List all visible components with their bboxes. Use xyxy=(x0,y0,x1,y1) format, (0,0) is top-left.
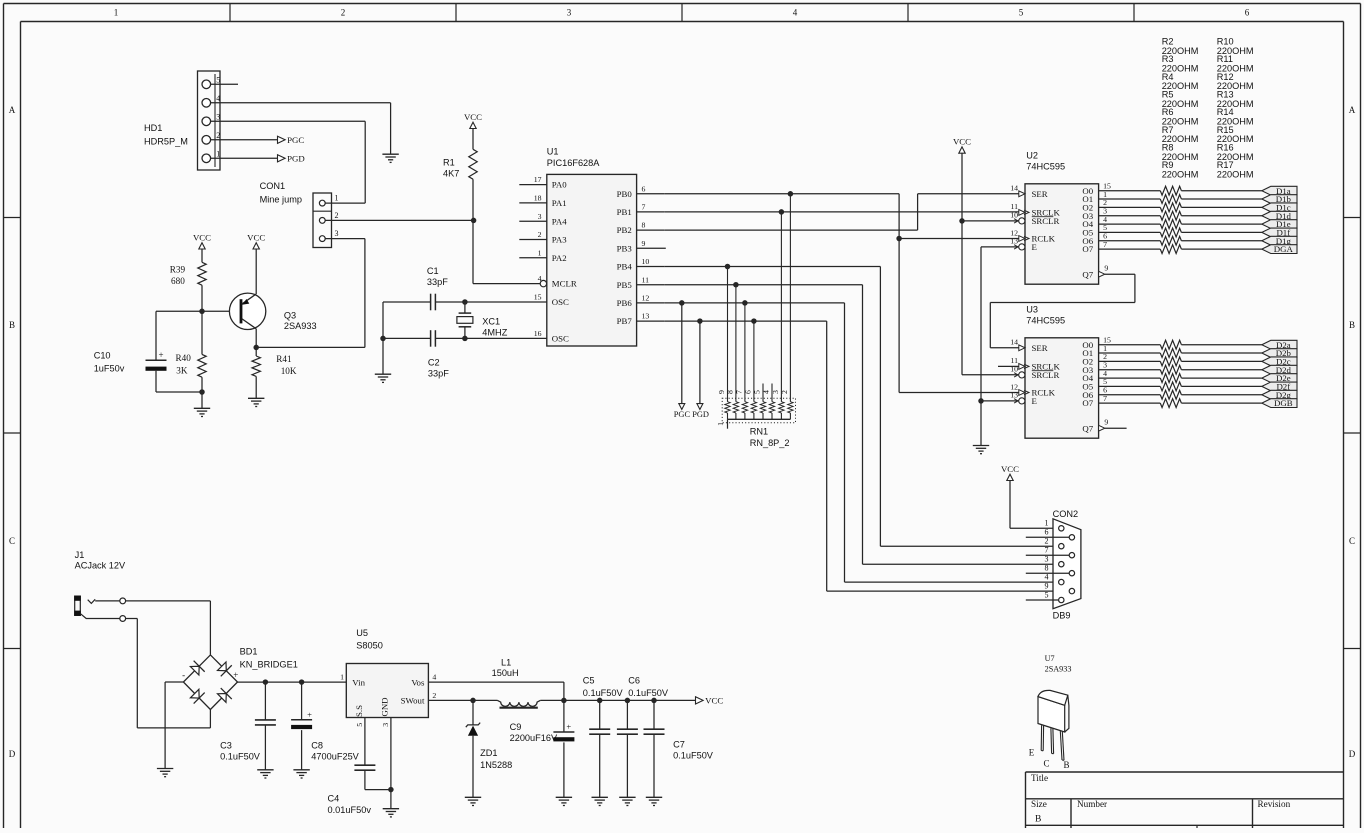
svg-text:U3: U3 xyxy=(1026,305,1038,315)
svg-text:9: 9 xyxy=(1045,582,1049,591)
svg-text:3: 3 xyxy=(381,723,390,727)
svg-text:C7: C7 xyxy=(673,739,685,749)
svg-text:3: 3 xyxy=(538,212,542,221)
svg-text:7: 7 xyxy=(642,203,646,212)
svg-text:0.1uF50V: 0.1uF50V xyxy=(220,751,261,761)
svg-text:+: + xyxy=(158,350,163,360)
svg-text:VCC: VCC xyxy=(193,232,211,242)
svg-text:C9: C9 xyxy=(510,722,522,732)
svg-text:8: 8 xyxy=(1045,564,1049,573)
svg-text:Vin: Vin xyxy=(352,677,365,687)
svg-text:PB7: PB7 xyxy=(617,316,633,326)
svg-text:A: A xyxy=(9,105,16,115)
svg-text:0.1uF50V: 0.1uF50V xyxy=(673,750,714,760)
svg-text:5: 5 xyxy=(753,390,762,394)
svg-text:12: 12 xyxy=(642,294,650,303)
svg-text:PIC16F628A: PIC16F628A xyxy=(547,158,600,168)
svg-text:ACJack 12V: ACJack 12V xyxy=(75,561,126,571)
svg-text:10: 10 xyxy=(1010,211,1018,220)
svg-text:3: 3 xyxy=(567,8,572,18)
svg-text:2SA933: 2SA933 xyxy=(1045,664,1072,673)
svg-text:C3: C3 xyxy=(220,740,232,750)
svg-text:3: 3 xyxy=(771,390,780,394)
svg-text:PB5: PB5 xyxy=(617,280,633,290)
svg-text:B: B xyxy=(1035,815,1041,825)
svg-text:6: 6 xyxy=(744,390,753,394)
svg-text:220OHM: 220OHM xyxy=(1217,170,1254,180)
svg-text:CON1: CON1 xyxy=(260,181,286,191)
svg-text:VCC: VCC xyxy=(1001,464,1019,474)
svg-text:17: 17 xyxy=(534,175,542,184)
svg-text:U5: U5 xyxy=(356,628,368,638)
svg-text:4K7: 4K7 xyxy=(443,169,459,179)
svg-text:C1: C1 xyxy=(427,266,439,276)
svg-text:-: - xyxy=(182,670,185,680)
svg-text:1N5288: 1N5288 xyxy=(480,760,512,770)
svg-text:C: C xyxy=(1043,758,1049,768)
svg-text:4: 4 xyxy=(1045,573,1049,582)
svg-text:3: 3 xyxy=(335,229,339,238)
svg-text:R1: R1 xyxy=(443,158,455,168)
svg-text:C: C xyxy=(1349,536,1355,546)
svg-text:U1: U1 xyxy=(547,146,559,156)
svg-text:7: 7 xyxy=(1103,240,1107,249)
svg-text:6: 6 xyxy=(1245,8,1250,18)
svg-text:PA3: PA3 xyxy=(552,235,567,245)
svg-text:DGA: DGA xyxy=(1274,244,1294,254)
svg-text:6: 6 xyxy=(642,184,646,193)
svg-text:13: 13 xyxy=(642,312,650,321)
svg-text:0.01uF50v: 0.01uF50v xyxy=(328,805,372,815)
svg-text:2: 2 xyxy=(538,230,542,239)
svg-text:16: 16 xyxy=(534,329,542,338)
svg-text:3K: 3K xyxy=(176,366,188,376)
svg-text:1: 1 xyxy=(340,673,344,682)
svg-text:5: 5 xyxy=(1019,8,1024,18)
svg-text:VCC: VCC xyxy=(464,112,482,122)
svg-text:10: 10 xyxy=(642,257,650,266)
svg-text:+: + xyxy=(233,670,238,680)
svg-text:4MHZ: 4MHZ xyxy=(482,328,507,338)
svg-text:9: 9 xyxy=(1104,417,1108,426)
svg-text:1uF50v: 1uF50v xyxy=(94,364,125,374)
svg-text:RN1: RN1 xyxy=(750,427,768,437)
svg-text:J1: J1 xyxy=(75,550,85,560)
svg-text:Mine jump: Mine jump xyxy=(260,195,302,205)
svg-text:RN_8P_2: RN_8P_2 xyxy=(750,438,790,448)
svg-text:C8: C8 xyxy=(311,740,323,750)
svg-text:DGB: DGB xyxy=(1274,398,1293,408)
svg-text:OSC: OSC xyxy=(552,334,569,344)
svg-text:Q7: Q7 xyxy=(1082,269,1093,279)
svg-text:9: 9 xyxy=(1104,263,1108,272)
svg-text:Vos: Vos xyxy=(411,677,425,687)
svg-text:CON2: CON2 xyxy=(1053,509,1079,519)
svg-text:GND: GND xyxy=(379,697,389,716)
svg-text:8: 8 xyxy=(642,221,646,230)
svg-text:11: 11 xyxy=(642,275,650,284)
svg-text:B: B xyxy=(1349,320,1355,330)
svg-text:C2: C2 xyxy=(428,358,440,368)
svg-text:13: 13 xyxy=(1010,237,1018,246)
svg-text:C4: C4 xyxy=(328,794,340,804)
svg-text:PB3: PB3 xyxy=(617,243,633,253)
svg-text:2: 2 xyxy=(1045,537,1049,546)
svg-text:5: 5 xyxy=(355,723,364,727)
svg-text:18: 18 xyxy=(534,194,542,203)
svg-text:SRCLR: SRCLR xyxy=(1032,370,1060,380)
svg-text:1: 1 xyxy=(216,150,220,159)
svg-text:7: 7 xyxy=(1103,394,1107,403)
svg-text:R39: R39 xyxy=(170,265,186,275)
svg-text:VCC: VCC xyxy=(247,232,265,242)
svg-text:5: 5 xyxy=(216,76,220,85)
svg-text:74HC595: 74HC595 xyxy=(1026,316,1065,326)
svg-text:4: 4 xyxy=(432,673,436,682)
svg-text:2: 2 xyxy=(341,8,346,18)
svg-text:B: B xyxy=(1063,760,1069,770)
svg-text:2200uF16V: 2200uF16V xyxy=(510,733,558,743)
svg-text:4: 4 xyxy=(538,274,542,283)
svg-text:2: 2 xyxy=(432,691,436,700)
svg-text:PB1: PB1 xyxy=(617,207,632,217)
svg-text:3: 3 xyxy=(216,113,220,122)
svg-text:D: D xyxy=(1349,749,1356,759)
svg-text:4: 4 xyxy=(762,390,771,394)
svg-text:2: 2 xyxy=(335,211,339,220)
svg-text:7: 7 xyxy=(735,390,744,394)
svg-text:SWout: SWout xyxy=(401,696,425,706)
svg-text:S8050: S8050 xyxy=(356,640,383,650)
svg-text:PA2: PA2 xyxy=(552,253,567,263)
svg-text:HDR5P_M: HDR5P_M xyxy=(144,137,188,147)
svg-text:0.1uF50V: 0.1uF50V xyxy=(628,688,669,698)
svg-text:33pF: 33pF xyxy=(427,277,448,287)
svg-text:MCLR: MCLR xyxy=(552,279,577,289)
svg-text:PB4: PB4 xyxy=(617,262,633,272)
svg-text:O7: O7 xyxy=(1082,244,1093,254)
svg-text:E: E xyxy=(1029,748,1035,758)
svg-text:E: E xyxy=(1032,396,1037,406)
svg-text:R40: R40 xyxy=(176,353,192,363)
svg-text:E: E xyxy=(1032,242,1037,252)
svg-text:8: 8 xyxy=(726,390,735,394)
svg-text:PGD: PGD xyxy=(287,154,305,164)
svg-text:S.S: S.S xyxy=(354,705,364,717)
svg-text:2: 2 xyxy=(780,390,789,394)
svg-text:680: 680 xyxy=(171,276,185,286)
svg-text:7: 7 xyxy=(1045,546,1049,555)
svg-text:PB0: PB0 xyxy=(617,189,633,199)
svg-text:1: 1 xyxy=(114,8,119,18)
svg-text:PGC: PGC xyxy=(287,135,304,145)
svg-text:PA4: PA4 xyxy=(552,216,567,226)
svg-text:2: 2 xyxy=(216,131,220,140)
svg-text:+: + xyxy=(566,721,571,731)
svg-text:10K: 10K xyxy=(281,366,297,376)
svg-text:14: 14 xyxy=(1010,184,1018,193)
svg-text:Number: Number xyxy=(1077,799,1107,809)
svg-text:Q3: Q3 xyxy=(284,311,296,321)
svg-text:2SA933: 2SA933 xyxy=(284,321,317,331)
svg-text:Title: Title xyxy=(1031,773,1048,783)
svg-text:OSC: OSC xyxy=(552,297,569,307)
svg-text:4: 4 xyxy=(216,94,220,103)
svg-text:A: A xyxy=(1349,105,1356,115)
svg-text:+: + xyxy=(307,709,312,719)
svg-text:15: 15 xyxy=(534,293,542,302)
svg-text:C10: C10 xyxy=(94,351,111,361)
svg-text:BD1: BD1 xyxy=(240,647,258,657)
svg-text:3: 3 xyxy=(1045,555,1049,564)
svg-text:PGD: PGD xyxy=(692,410,709,419)
svg-text:1: 1 xyxy=(335,194,339,203)
svg-text:1: 1 xyxy=(1045,519,1049,528)
svg-text:PA1: PA1 xyxy=(552,198,567,208)
svg-text:4: 4 xyxy=(793,8,798,18)
svg-text:VCC: VCC xyxy=(705,696,723,706)
svg-text:220OHM: 220OHM xyxy=(1162,170,1199,180)
svg-text:KN_BRIDGE1: KN_BRIDGE1 xyxy=(240,660,298,670)
svg-text:HD1: HD1 xyxy=(144,123,162,133)
svg-text:C6: C6 xyxy=(628,675,640,685)
svg-text:0.1uF50V: 0.1uF50V xyxy=(583,688,624,698)
svg-text:O7: O7 xyxy=(1082,398,1093,408)
svg-text:Size: Size xyxy=(1031,799,1047,809)
svg-text:R41: R41 xyxy=(276,354,292,364)
svg-text:PGC: PGC xyxy=(674,410,691,419)
svg-text:74HC595: 74HC595 xyxy=(1026,162,1065,172)
svg-text:B: B xyxy=(9,320,15,330)
svg-text:U2: U2 xyxy=(1026,151,1038,161)
svg-text:150uH: 150uH xyxy=(492,668,519,678)
svg-text:14: 14 xyxy=(1010,338,1018,347)
svg-text:Q7: Q7 xyxy=(1082,423,1093,433)
svg-text:U7: U7 xyxy=(1045,654,1055,663)
svg-text:SRCLR: SRCLR xyxy=(1032,216,1060,226)
svg-text:1: 1 xyxy=(538,248,542,257)
svg-text:SER: SER xyxy=(1032,189,1048,199)
svg-text:VCC: VCC xyxy=(953,137,971,147)
svg-text:C5: C5 xyxy=(583,675,595,685)
svg-text:9: 9 xyxy=(642,239,646,248)
svg-text:5: 5 xyxy=(1045,590,1049,599)
svg-text:XC1: XC1 xyxy=(482,317,500,327)
svg-text:6: 6 xyxy=(1045,528,1049,537)
svg-text:1: 1 xyxy=(716,422,725,426)
svg-text:Revision: Revision xyxy=(1258,799,1291,809)
svg-text:L1: L1 xyxy=(501,657,511,667)
svg-text:PA0: PA0 xyxy=(552,180,567,190)
svg-text:D: D xyxy=(9,749,16,759)
svg-text:ZD1: ZD1 xyxy=(480,748,497,758)
svg-text:4700uF25V: 4700uF25V xyxy=(311,751,359,761)
svg-text:C: C xyxy=(9,536,15,546)
svg-text:DB9: DB9 xyxy=(1053,611,1071,621)
svg-text:PB2: PB2 xyxy=(617,225,632,235)
svg-text:13: 13 xyxy=(1010,391,1018,400)
svg-text:PB6: PB6 xyxy=(617,298,633,308)
svg-text:SER: SER xyxy=(1032,343,1048,353)
svg-text:33pF: 33pF xyxy=(428,369,449,379)
